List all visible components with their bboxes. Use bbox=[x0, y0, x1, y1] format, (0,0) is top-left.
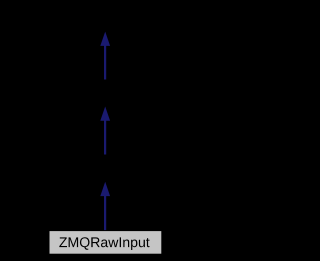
node box 1 (top base class, black on black: invisible) bbox=[55, 6, 155, 32]
arrow 1 (inheritance edge to top base class) bbox=[100, 32, 110, 81]
node box ZMQRawInput (current class, grey filled) bbox=[49, 231, 162, 255]
node label ZMQRawInput bbox=[59, 237, 149, 250]
node box 2 (second base class, black on black: invisible) bbox=[55, 80, 155, 106]
arrow 2 (inheritance edge) bbox=[100, 107, 110, 156]
node box 3 (third base class, black on black: invisible) bbox=[55, 155, 155, 181]
arrow 3 (inheritance edge from ZMQRawInput) bbox=[100, 182, 110, 231]
